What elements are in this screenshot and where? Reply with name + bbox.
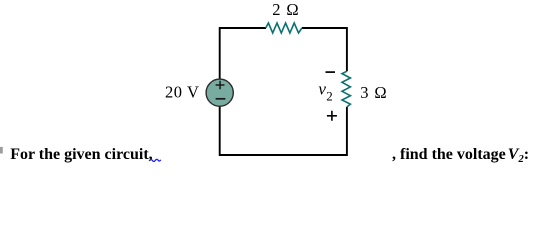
resistor R1 2-ohm zigzag (top): [266, 23, 302, 33]
svg-text:2 Ω: 2 Ω: [272, 0, 299, 19]
left-edge clipped gray mark: [0, 147, 3, 154]
node polarity plus sign (bottom of v2): [327, 111, 337, 121]
svg-text:For the given circuit,: For the given circuit,: [10, 146, 153, 163]
wire: top-right corner segment down to resistor R2 top: [302, 28, 347, 71]
svg-text:, find the voltage V2:: , find the voltage V2:: [392, 146, 529, 165]
blue grammar squiggle after comma: [149, 159, 161, 161]
voltage source V1 plus terminal mark: [216, 81, 225, 89]
voltage source V1 circle body: [206, 79, 233, 106]
resistor R2 3-ohm zigzag (right): [342, 71, 350, 107]
svg-text:2: 2: [326, 88, 333, 103]
node polarity minus sign (top of v2): [326, 71, 336, 73]
svg-text:20 V: 20 V: [165, 82, 199, 101]
svg-text:3 Ω: 3 Ω: [360, 83, 387, 102]
wire: left branch with top-left corner (source top to top wire start): [220, 28, 266, 79]
svg-text:v: v: [318, 80, 326, 99]
wire: bottom loop (R2 bottom, down, bottom wire, up to source bottom): [220, 106, 347, 155]
voltage source V1 minus terminal mark: [216, 98, 226, 100]
